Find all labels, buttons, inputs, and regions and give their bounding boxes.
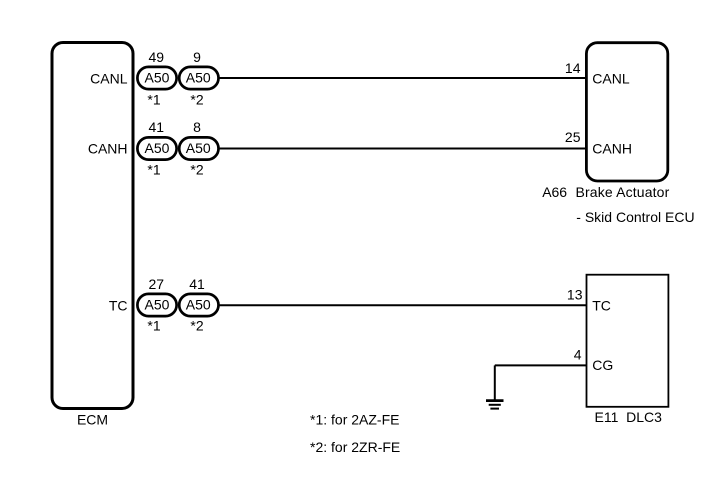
connector A50 (*2, TC): [179, 294, 218, 316]
svg-text:ECM: ECM: [77, 412, 108, 428]
svg-text:*1: *1: [147, 91, 160, 107]
svg-text:8: 8: [193, 119, 201, 135]
svg-text:A50: A50: [145, 297, 170, 313]
svg-text:9: 9: [193, 49, 201, 65]
svg-text:CANH: CANH: [592, 140, 632, 156]
connector A50 (*2, CANL): [179, 67, 218, 89]
svg-text:Brake Actuator: Brake Actuator: [576, 184, 670, 200]
svg-text:*2: *2: [190, 161, 203, 177]
svg-text:25: 25: [565, 129, 581, 145]
svg-text:A66: A66: [542, 184, 567, 200]
svg-text:14: 14: [565, 60, 581, 76]
svg-text:CANL: CANL: [90, 71, 128, 87]
svg-text:13: 13: [567, 286, 583, 302]
DLC3 box E11: [587, 275, 669, 407]
svg-text:*2: *2: [190, 318, 203, 334]
svg-text:27: 27: [149, 276, 165, 292]
svg-text:- Skid Control ECU: - Skid Control ECU: [576, 209, 694, 225]
svg-text:TC: TC: [592, 298, 611, 314]
svg-text:A50: A50: [145, 140, 170, 156]
svg-text:CANL: CANL: [592, 71, 630, 87]
connector A50 (*1, CANL): [137, 67, 176, 89]
svg-text:41: 41: [149, 119, 165, 135]
svg-text:A50: A50: [186, 70, 211, 86]
connector A50 (*1, TC): [137, 294, 176, 316]
wire CG vertical drop: [494, 365, 496, 399]
svg-text:4: 4: [574, 347, 582, 363]
wire TC: [218, 304, 587, 306]
svg-text:A50: A50: [145, 70, 170, 86]
svg-text:CG: CG: [592, 357, 613, 373]
svg-text:*1: *1: [147, 318, 160, 334]
wire CANL: [218, 77, 586, 79]
wire CG horizontal: [495, 364, 587, 366]
svg-text:TC: TC: [109, 298, 128, 314]
ground symbol: [486, 401, 504, 409]
connector A50 (*2, CANH): [179, 137, 218, 159]
svg-text:*2: *2: [190, 91, 203, 107]
connector A50 (*1, CANH): [137, 137, 176, 159]
svg-text:CANH: CANH: [88, 141, 128, 157]
svg-text:41: 41: [189, 276, 205, 292]
svg-text:49: 49: [149, 49, 165, 65]
svg-text:A50: A50: [186, 297, 211, 313]
svg-text:*2: for 2ZR-FE: *2: for 2ZR-FE: [310, 439, 400, 455]
ECM box U1: [52, 43, 133, 409]
svg-text:A50: A50: [186, 140, 211, 156]
svg-text:*1: *1: [147, 161, 160, 177]
svg-text:E11 DLC3: E11 DLC3: [595, 409, 663, 425]
svg-text:*1: for 2AZ-FE: *1: for 2AZ-FE: [310, 412, 399, 428]
wire CANH: [218, 148, 586, 150]
brake actuator / skid control ECU box A66: [586, 43, 667, 181]
